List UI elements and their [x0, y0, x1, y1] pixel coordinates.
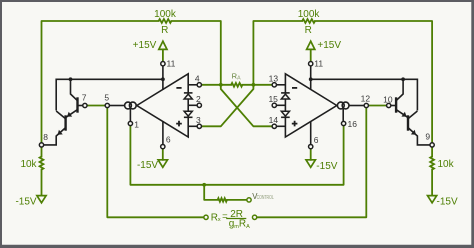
svg-text:14: 14: [269, 115, 279, 125]
V- stub left amp: [162, 121, 164, 144]
transistor Q2 left collector: [56, 111, 65, 119]
pin 12 terminal: [364, 103, 368, 107]
wire pin9 to 10k: [431, 147, 433, 157]
transistor Q2 right collector: [408, 111, 417, 119]
pin 16 terminal: [341, 121, 345, 125]
-15V arrow far left: [37, 196, 46, 203]
svg-text:R: R: [305, 25, 312, 36]
transistor Q1 right bar: [395, 97, 397, 112]
wire right top to node drop: [253, 21, 302, 85]
wire left top to node drop: [171, 21, 220, 85]
svg-text:4: 4: [195, 74, 200, 84]
pin 1 terminal: [128, 121, 132, 125]
junction Q1 collector left: [69, 77, 73, 81]
minus sign right amp: [292, 87, 297, 89]
pin 11 right terminal: [309, 62, 313, 66]
wire bias bus pin1 to pin16: [130, 126, 343, 185]
diode D1 left (cathode up): [184, 92, 193, 94]
pin 4 terminal: [197, 83, 201, 87]
svg-text:3: 3: [196, 115, 201, 125]
wire +15V to pin11 right: [310, 49, 312, 61]
pin 14 terminal: [272, 124, 276, 128]
wire pin6 to -15V right: [310, 149, 312, 160]
bias stub left amp: [129, 109, 131, 121]
wire pin12 down to Rx terminal: [257, 108, 366, 217]
wire cross node B to pin3 line: [202, 85, 253, 127]
wire left feedback loop vertical+top: [42, 21, 159, 143]
svg-text:100k: 100k: [154, 9, 177, 20]
svg-text:+15V: +15V: [317, 40, 341, 51]
transistor Q1 right emitter: [396, 110, 408, 118]
svg-text:6: 6: [166, 134, 171, 144]
transistor Q2 left bar: [64, 115, 66, 130]
svg-text:10: 10: [383, 94, 393, 104]
resistor RA: [231, 83, 242, 87]
wire pin12 to pin10: [369, 105, 386, 107]
svg-text:15: 15: [268, 94, 278, 104]
bias stub right amp: [342, 109, 344, 121]
svg-text:8: 8: [43, 132, 48, 142]
V- stub right amp: [310, 121, 312, 144]
wire pin7 to pin5: [88, 105, 105, 107]
input stubs left amp: [188, 84, 196, 86]
collector rail right: [311, 79, 418, 110]
svg-text:10k: 10k: [438, 159, 455, 170]
minus sign left amp: [176, 87, 181, 89]
+15V arrow left: [159, 41, 167, 49]
op-amp U1A triangle: [137, 74, 188, 137]
svg-text:+15V: +15V: [133, 40, 157, 51]
svg-text:13: 13: [269, 74, 279, 84]
resistor Rc (control): [218, 198, 227, 202]
pin 6 left terminal: [161, 144, 165, 148]
svg-text:-15V: -15V: [437, 196, 458, 207]
pin 10 terminal: [387, 103, 391, 107]
wire node B to pin13: [242, 84, 271, 86]
transistor Q2 right bar: [407, 115, 409, 130]
V+ stub right amp: [310, 66, 312, 90]
input stubs right amp: [277, 84, 285, 86]
pin 7 terminal: [83, 103, 87, 107]
transistor Q1 left bar: [76, 97, 78, 112]
svg-text:5: 5: [104, 93, 109, 103]
terminal Vcontrol: [247, 198, 251, 202]
pin 3 terminal: [197, 124, 201, 128]
resistor R (100k) left: [159, 19, 172, 23]
svg-text:11: 11: [167, 58, 176, 68]
svg-text:16: 16: [348, 119, 358, 129]
wire Rc to Vcontrol terminal: [227, 199, 246, 201]
-15V arrow far right: [428, 196, 437, 203]
svg-text:11: 11: [314, 58, 323, 68]
junction V+ rail right: [309, 77, 313, 81]
svg-text:CONTROL: CONTROL: [257, 195, 274, 201]
svg-text:1: 1: [134, 119, 139, 129]
diode D1 right (cathode up): [281, 92, 290, 94]
transistor Q2 left emitter: [44, 128, 66, 145]
svg-text:R: R: [161, 25, 168, 36]
svg-text:2: 2: [196, 94, 201, 104]
junction node A: [219, 83, 223, 87]
pin 6 right terminal: [309, 144, 313, 148]
wire junction down to Rc: [204, 185, 217, 200]
transistor Q1 left collector: [71, 79, 78, 100]
svg-text:9: 9: [425, 131, 430, 141]
wire right feedback loop vertical+top: [315, 21, 432, 143]
wire pin5 down to Rx terminal: [107, 108, 203, 217]
transistor Q1 left emitter: [66, 110, 78, 118]
pin 13 terminal: [272, 83, 276, 87]
junction node B: [252, 83, 256, 87]
pin 8 terminal: [39, 143, 43, 147]
output current-source symbol left amp: [110, 105, 125, 107]
-15V arrow left amp: [158, 160, 167, 168]
diode D2 left (cathode down): [184, 111, 192, 116]
pin 9 terminal: [430, 143, 434, 147]
diode D2 right (cathode down): [281, 111, 289, 116]
terminal Rx right: [252, 215, 256, 219]
pin 11 left terminal: [161, 62, 165, 66]
svg-text:10k: 10k: [20, 159, 37, 170]
svg-text:6: 6: [314, 135, 319, 145]
junction bias bus / Vcontrol: [202, 183, 206, 187]
resistor R (100k) right: [302, 19, 315, 23]
resistor 10k left: [40, 157, 44, 170]
wire pin8 to 10k: [41, 147, 43, 157]
pin 2 terminal: [197, 103, 201, 107]
wire pin4 to node A: [202, 84, 231, 86]
collector rail left: [56, 79, 163, 110]
plus sign left amp: [176, 121, 182, 127]
output current-source symbol right amp: [349, 105, 364, 107]
wire +15V to pin11 left: [162, 49, 164, 61]
svg-text:-15V: -15V: [15, 196, 36, 207]
junction V+ rail left: [161, 77, 165, 81]
svg-text:-15V: -15V: [316, 161, 337, 172]
pin 15 terminal: [272, 103, 276, 107]
svg-text:100k: 100k: [298, 9, 321, 20]
resistor 10k right: [430, 157, 434, 170]
wire cross node A to pin14 line: [221, 85, 272, 127]
pin 5 terminal: [105, 103, 109, 107]
transistor Q1 right collector: [396, 79, 403, 100]
-15V arrow right amp: [306, 160, 315, 168]
+15V arrow right: [307, 41, 315, 49]
wire 10k to -15V right: [431, 170, 433, 196]
transistor Q2 right emitter: [408, 128, 430, 145]
plus sign right amp: [292, 121, 298, 127]
terminal Rx left: [204, 215, 208, 219]
V+ stub left amp: [162, 66, 164, 90]
wire pin6 to -15V left: [162, 149, 164, 160]
op-amp U1B triangle: [285, 74, 336, 137]
svg-text:-15V: -15V: [137, 160, 158, 171]
svg-text:12: 12: [361, 94, 371, 104]
junction Q1 collector right: [401, 77, 405, 81]
svg-text:7: 7: [82, 93, 87, 103]
wire 10k to -15V left: [41, 170, 43, 196]
